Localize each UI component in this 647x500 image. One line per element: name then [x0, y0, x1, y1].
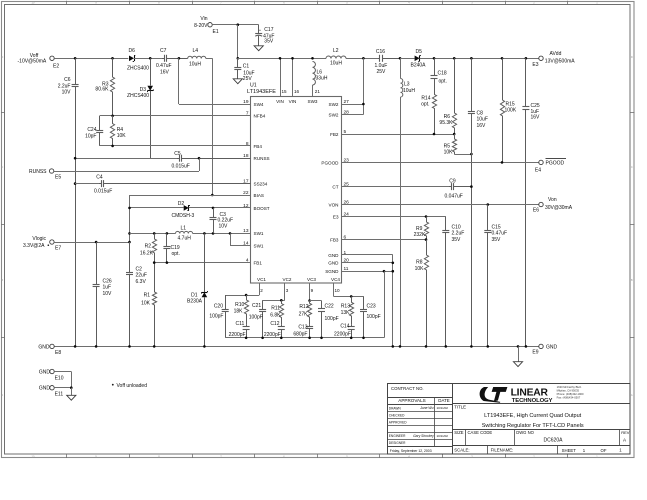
- svg-text:DESIGNER: DESIGNER: [389, 441, 406, 445]
- svg-text:SW1: SW1: [254, 244, 264, 249]
- svg-text:D: D: [631, 55, 633, 59]
- svg-text:C13: C13: [298, 325, 307, 331]
- svg-text:13V@500mA: 13V@500mA: [545, 59, 575, 65]
- svg-text:B230A: B230A: [187, 299, 203, 305]
- junction Vin rail start: [237, 57, 240, 60]
- capacitor C17 47uF polarized: [258, 25, 260, 34]
- svg-text:VC2: VC2: [283, 277, 292, 282]
- diode D6 ZHCS400: [129, 56, 134, 62]
- svg-text:27K: 27K: [299, 312, 309, 318]
- svg-text:16V: 16V: [531, 115, 541, 121]
- ground for C1: [233, 79, 242, 84]
- capacitor C20 100pF: [225, 295, 227, 309]
- svg-text:SHEET: SHEET: [562, 448, 577, 453]
- junction L3 top: [399, 57, 402, 60]
- svg-text:U1: U1: [250, 82, 257, 88]
- svg-text:100pF: 100pF: [209, 314, 223, 320]
- svg-text:SGND: SGND: [325, 269, 339, 274]
- svg-text:E8: E8: [55, 350, 61, 356]
- capacitor C1 10uF: [237, 58, 239, 67]
- terminal E4 PGOOD: [539, 160, 543, 164]
- junctions on ground rail: [74, 345, 77, 348]
- capacitor C22 100pF: [321, 301, 323, 309]
- svg-text:BOOST: BOOST: [254, 206, 270, 211]
- resistor R13 13K: [349, 296, 353, 324]
- wire SW2 riser: [363, 58, 365, 114]
- svg-text:C8: C8: [477, 111, 484, 117]
- junction SGND comp riser: [383, 270, 386, 273]
- capacitor C24 10pF: [99, 116, 101, 130]
- capacitor C25 1uF: [525, 58, 527, 107]
- svg-text:C6: C6: [64, 77, 71, 83]
- resistor R5 10K: [452, 134, 456, 154]
- svg-text:opt.: opt.: [172, 251, 180, 257]
- svg-text:C14: C14: [340, 324, 349, 330]
- title block left column lines: [452, 383, 454, 454]
- svg-text:CHECKED: CHECKED: [389, 413, 405, 417]
- wire C1 riser: [237, 25, 239, 59]
- wire FB2 net: [342, 134, 455, 136]
- svg-text:1uF: 1uF: [103, 285, 112, 291]
- svg-text:22uF: 22uF: [136, 273, 147, 279]
- wire VC1 stub: [259, 283, 261, 295]
- svg-text:10uH: 10uH: [403, 88, 415, 94]
- svg-text:2200pF: 2200pF: [229, 332, 246, 338]
- diode D2 CMDSH-3: [184, 205, 189, 211]
- svg-text:opt.: opt.: [439, 78, 447, 84]
- diode D5 B240A: [415, 56, 420, 62]
- svg-text:APPROVED: APPROVED: [389, 420, 407, 424]
- svg-text:E6: E6: [533, 207, 539, 213]
- svg-text:16: 16: [294, 89, 300, 94]
- diode D3 ZHCS400: [150, 58, 152, 85]
- svg-text:GND: GND: [39, 386, 51, 392]
- svg-text:C11: C11: [235, 321, 244, 327]
- svg-text:GND: GND: [546, 344, 558, 350]
- svg-text:R9: R9: [416, 226, 423, 232]
- svg-text:VC4: VC4: [331, 277, 340, 282]
- svg-text:FB4: FB4: [254, 144, 263, 149]
- svg-text:R14: R14: [421, 95, 430, 101]
- svg-text:1630 McCarthy Blvd.: 1630 McCarthy Blvd.: [557, 385, 582, 389]
- wire R5 bottom to C8 line: [454, 154, 471, 156]
- svg-text:3: 3: [286, 288, 289, 293]
- svg-text:95.3K: 95.3K: [439, 120, 453, 126]
- capacitor C18 opt: [434, 58, 436, 76]
- wire VC3 horizontal: [310, 300, 322, 302]
- svg-text:35V: 35V: [452, 237, 462, 243]
- wire E10: [54, 371, 71, 373]
- svg-text:Friday, September 12, 2003: Friday, September 12, 2003: [390, 449, 432, 453]
- svg-text:L2: L2: [333, 48, 339, 54]
- svg-text:CASE CODE: CASE CODE: [468, 430, 493, 435]
- wire VC2 horizontal: [263, 300, 285, 302]
- svg-text:VON: VON: [329, 202, 339, 207]
- svg-text:C12: C12: [270, 321, 279, 327]
- capacitor C2 22uF: [129, 242, 131, 272]
- svg-text:R11: R11: [271, 306, 280, 312]
- svg-text:opt.: opt.: [421, 102, 429, 108]
- wire SW4 to pin 19: [179, 104, 251, 106]
- capacitor C6 2.2uF: [75, 58, 77, 84]
- svg-text:B: B: [631, 278, 633, 282]
- svg-text:8-20V: 8-20V: [194, 23, 208, 29]
- svg-text:2200pF: 2200pF: [334, 332, 351, 338]
- svg-text:D: D: [1, 55, 3, 59]
- border zone ticks: [66, 1, 68, 4]
- svg-text:35V: 35V: [492, 237, 502, 243]
- wire FB4 rail: [100, 145, 251, 147]
- svg-text:3.3V@2A: 3.3V@2A: [23, 243, 45, 249]
- svg-text:C17: C17: [264, 27, 273, 33]
- svg-text:R8: R8: [416, 260, 423, 266]
- svg-text:C15: C15: [492, 225, 501, 231]
- svg-text:6.8K: 6.8K: [270, 312, 281, 318]
- resistor R2 16.2K: [152, 233, 156, 262]
- svg-text:100pF: 100pF: [325, 316, 339, 322]
- svg-text:E3: E3: [532, 62, 538, 68]
- title area: [452, 403, 630, 405]
- scale row: [452, 445, 630, 447]
- wire BIAS net: [130, 195, 251, 197]
- svg-text:4.7uH: 4.7uH: [178, 236, 192, 242]
- wire E3 pin net: [342, 216, 446, 218]
- svg-text:10V: 10V: [62, 90, 72, 96]
- svg-text:C10: C10: [452, 225, 461, 231]
- svg-text:PGOOD: PGOOD: [546, 160, 565, 166]
- note Voff unloaded: [112, 384, 114, 386]
- terminal E5 RUNSS: [49, 169, 53, 173]
- wire SGND pin11: [342, 271, 393, 273]
- svg-text:C26: C26: [103, 279, 112, 285]
- svg-text:C18: C18: [438, 71, 447, 77]
- svg-text:0.47uF: 0.47uF: [492, 231, 508, 237]
- resistor R4 10K: [110, 116, 114, 146]
- junction C26: [95, 241, 98, 244]
- svg-text:SW1: SW1: [254, 231, 264, 236]
- svg-text:L6: L6: [317, 70, 323, 76]
- wire E7 to C2 line: [54, 242, 129, 244]
- diode D1 B230A: [204, 233, 206, 292]
- svg-text:16.2K: 16.2K: [140, 251, 154, 257]
- svg-text:SW2: SW2: [329, 102, 339, 107]
- svg-text:C16: C16: [376, 49, 385, 55]
- svg-text:VIN: VIN: [276, 99, 284, 104]
- svg-text:6.3V: 6.3V: [136, 279, 147, 285]
- svg-text:Vin: Vin: [200, 16, 207, 22]
- capacitor C14 2200pF: [351, 325, 353, 327]
- wire L2 to C16: [346, 58, 377, 60]
- svg-text:R13: R13: [341, 304, 350, 310]
- svg-text:DWG NO: DWG NO: [516, 430, 534, 435]
- inductor L6 33uH: [313, 62, 316, 86]
- wire SW2 pin28: [342, 114, 364, 116]
- svg-text:C2: C2: [136, 267, 143, 273]
- wire E11: [54, 387, 71, 389]
- svg-text:FB1: FB1: [254, 261, 263, 266]
- capacitor C4 0.015uF: [98, 183, 101, 185]
- wire GND pin1: [342, 254, 393, 256]
- svg-text:10K: 10K: [415, 266, 425, 272]
- svg-text:ZHCS400: ZHCS400: [127, 93, 149, 99]
- junctions on C6 line: [74, 157, 77, 160]
- wire SS234 net: [75, 183, 98, 185]
- terminal E10 GND: [50, 369, 54, 373]
- op-amp U1 LT1943EFE body: [251, 97, 342, 284]
- wire VC3 stub: [309, 283, 311, 300]
- svg-text:C20: C20: [214, 304, 223, 310]
- capacitor C3 0.22uF: [213, 208, 215, 218]
- svg-text:100pF: 100pF: [249, 315, 263, 321]
- wire BOOST net: [130, 207, 184, 209]
- svg-text:SW4: SW4: [254, 102, 264, 107]
- svg-text:VIN: VIN: [289, 99, 297, 104]
- wire SW4 riser: [178, 58, 180, 104]
- svg-text:L3: L3: [404, 82, 410, 88]
- terminal E8 GND: [50, 344, 54, 348]
- terminal E7 Vlogic: [50, 240, 54, 244]
- svg-text:R15: R15: [506, 101, 515, 107]
- svg-text:10V: 10V: [219, 223, 229, 229]
- svg-text:E3: E3: [333, 214, 339, 219]
- svg-text:2: 2: [260, 288, 263, 293]
- svg-text:LT1943EFE: LT1943EFE: [247, 89, 276, 95]
- svg-text:GND: GND: [38, 344, 50, 350]
- wire E1 to C17: [212, 24, 259, 26]
- svg-text:SW2: SW2: [329, 113, 339, 118]
- svg-text:CT: CT: [332, 185, 338, 190]
- svg-text:2.2uF: 2.2uF: [452, 231, 465, 237]
- wire D5 to AVdd terminal: [420, 58, 539, 60]
- capacitor C12 2200pF: [281, 325, 283, 327]
- svg-text:AVdd: AVdd: [550, 51, 562, 57]
- svg-text:A: A: [1, 393, 3, 397]
- wire VIN pin 15 riser: [280, 58, 282, 96]
- svg-text:10K: 10K: [141, 300, 151, 306]
- wire VIN pin 16 riser: [292, 58, 294, 96]
- svg-text:E7: E7: [55, 245, 61, 251]
- svg-text:C5: C5: [174, 151, 181, 157]
- capacitor C9 0.047uF: [449, 186, 452, 188]
- svg-text:June Wu: June Wu: [419, 406, 433, 410]
- svg-text:FILENAME:: FILENAME:: [491, 447, 514, 452]
- svg-text:GND: GND: [328, 253, 339, 258]
- resistor R9 232K: [424, 217, 428, 240]
- svg-text:Vlogic: Vlogic: [32, 236, 46, 242]
- svg-text:35V: 35V: [264, 39, 274, 45]
- wire comp riser: [384, 271, 386, 338]
- svg-text:D2: D2: [178, 201, 185, 207]
- svg-text:E1: E1: [213, 29, 219, 35]
- wire Voff rail: [54, 58, 128, 60]
- wire BIAS vertical: [129, 195, 131, 273]
- svg-text:LT1943EFE, High Current Quad O: LT1943EFE, High Current Quad Output: [484, 413, 581, 419]
- svg-text:C1: C1: [243, 64, 250, 70]
- svg-text:10uH: 10uH: [330, 61, 342, 67]
- wire GND riser: [392, 255, 394, 347]
- wire VC4 horizontal: [334, 296, 364, 298]
- resistor R12 27K: [307, 301, 311, 325]
- svg-text:APPROVALS: APPROVALS: [398, 398, 426, 403]
- wire VC2 stub: [284, 283, 286, 300]
- svg-text:SCALE:: SCALE:: [454, 447, 469, 452]
- wire D6 to C7: [134, 58, 161, 60]
- svg-text:SIZE: SIZE: [454, 430, 464, 435]
- svg-text:Fax: (408)434-0507: Fax: (408)434-0507: [557, 395, 581, 399]
- svg-text:13K: 13K: [341, 310, 351, 316]
- svg-text:R6: R6: [444, 114, 451, 120]
- svg-text:PGOOD: PGOOD: [321, 160, 339, 165]
- svg-text:C21: C21: [252, 303, 261, 309]
- svg-text:OF: OF: [601, 448, 607, 453]
- wire rail to D5: [400, 58, 415, 60]
- wire SW1 pin14 jog: [230, 233, 232, 245]
- svg-text:-10V@50mA: -10V@50mA: [18, 59, 47, 65]
- svg-text:E9: E9: [532, 350, 538, 356]
- terminal E11 GND: [50, 386, 54, 390]
- svg-text:R10: R10: [235, 302, 244, 308]
- wire RUNSS net: [75, 158, 177, 160]
- svg-text:C7: C7: [160, 48, 167, 54]
- inductor L3 10uH: [400, 58, 402, 78]
- svg-text:B240A: B240A: [411, 63, 427, 69]
- svg-text:C23: C23: [367, 304, 376, 310]
- svg-text:0.47uF: 0.47uF: [156, 63, 172, 69]
- wire SW1 node: [193, 233, 251, 235]
- wire Vin rail: [238, 58, 326, 60]
- svg-text:Phone: (408)432-1900: Phone: (408)432-1900: [557, 392, 584, 396]
- svg-text:9: 9: [311, 288, 314, 293]
- capacitor C11 2200pF: [246, 325, 248, 327]
- ground symbol E10/E11: [67, 395, 76, 400]
- wire D2 to pin 12: [189, 207, 251, 209]
- junction R4 bottom: [111, 145, 114, 148]
- svg-text:0.047uF: 0.047uF: [445, 194, 463, 200]
- svg-text:E11: E11: [55, 392, 64, 398]
- wire E5 to riser: [54, 171, 199, 173]
- capacitor C21 100pF: [262, 300, 264, 309]
- svg-text:R5: R5: [444, 143, 451, 149]
- junction L4-BIAS: [211, 194, 214, 197]
- terminal E1 Vin: [208, 23, 212, 27]
- terminal E9 GND: [539, 344, 543, 348]
- svg-text:R4: R4: [117, 127, 124, 133]
- svg-text:C: C: [1, 165, 3, 169]
- svg-text:10/11/02: 10/11/02: [437, 406, 449, 410]
- svg-text:Voff unloaded: Voff unloaded: [117, 383, 148, 389]
- wire VON net: [342, 204, 539, 206]
- svg-text:B: B: [1, 278, 3, 282]
- svg-text:10uF: 10uF: [477, 117, 488, 123]
- capacitor C10 2.2uF: [445, 217, 447, 231]
- wire L4 to corner: [206, 58, 213, 60]
- wire L4 riser down to BIAS: [212, 58, 214, 195]
- svg-text:REV: REV: [621, 430, 630, 435]
- svg-text:10V: 10V: [103, 291, 113, 297]
- svg-text:0.015uF: 0.015uF: [172, 164, 190, 170]
- svg-text:80.6K: 80.6K: [95, 87, 109, 93]
- svg-text:680pF: 680pF: [293, 331, 307, 337]
- wire CT net: [342, 186, 450, 188]
- svg-text:10uH: 10uH: [189, 62, 201, 68]
- svg-text:Von: Von: [548, 197, 557, 203]
- svg-text:18K: 18K: [234, 308, 244, 314]
- svg-text:R1: R1: [144, 293, 151, 299]
- ground symbol on rail: [518, 346, 520, 361]
- svg-text:E10: E10: [55, 375, 64, 381]
- junctions on AVdd rail: [433, 57, 436, 60]
- capacitor C23 100pF: [363, 296, 365, 298]
- svg-text:ENGINEER: ENGINEER: [389, 434, 406, 438]
- capacitor C26 1uF: [96, 242, 98, 284]
- resistor R8 10K: [424, 240, 428, 347]
- resistor R6 95.3K: [452, 58, 456, 134]
- wire FB3 net: [342, 239, 427, 241]
- svg-text:C24: C24: [87, 127, 96, 133]
- svg-text:E2: E2: [53, 63, 59, 69]
- svg-text:Gary Shockey: Gary Shockey: [413, 434, 434, 438]
- svg-text:Switching Regulator For TFT-LC: Switching Regulator For TFT-LCD Panels: [482, 423, 584, 429]
- svg-text:25V: 25V: [243, 76, 253, 82]
- wire Vlogic output node: [130, 233, 176, 235]
- wire main ground rail: [54, 346, 539, 348]
- svg-text:E5: E5: [55, 174, 61, 180]
- svg-text:100pF: 100pF: [367, 314, 381, 320]
- ground for C17: [254, 46, 263, 51]
- wire VC1 horizontal: [225, 295, 259, 297]
- resistor R14 opt: [432, 91, 436, 134]
- svg-text:A: A: [631, 393, 633, 397]
- svg-text:232K: 232K: [414, 232, 426, 238]
- svg-text:FB3: FB3: [330, 238, 339, 243]
- svg-text:E4: E4: [535, 167, 541, 173]
- svg-text:DRAWN: DRAWN: [389, 406, 402, 410]
- inductor L2 10uH: [326, 56, 346, 59]
- inductor L4 10uH: [188, 56, 206, 58]
- svg-text:D6: D6: [129, 48, 136, 54]
- svg-text:1.0uF: 1.0uF: [375, 63, 388, 69]
- wire GND pin20: [342, 262, 393, 264]
- capacitor C13 680pF: [309, 325, 311, 327]
- svg-text:VC3: VC3: [307, 277, 316, 282]
- junction L6 top: [311, 57, 314, 60]
- svg-text:BIAS: BIAS: [254, 193, 264, 198]
- junction C1 riser: [237, 23, 240, 26]
- svg-text:10: 10: [335, 288, 341, 293]
- svg-text:R12: R12: [299, 304, 308, 310]
- svg-text:RUNSS: RUNSS: [29, 169, 47, 175]
- resistor R1 10K: [152, 263, 156, 347]
- terminal E6 Von: [539, 202, 543, 206]
- svg-text:10K: 10K: [444, 149, 454, 155]
- svg-text:100K: 100K: [505, 108, 517, 114]
- wire comp ground rail: [225, 337, 384, 339]
- wire SW2 pin27: [342, 104, 364, 106]
- svg-text:D3: D3: [140, 87, 147, 93]
- svg-text:DATE: DATE: [438, 398, 449, 403]
- svg-text:10pF: 10pF: [85, 134, 96, 140]
- size row: [452, 429, 630, 431]
- capacitor C7 0.47uF: [161, 58, 164, 60]
- svg-text:25V: 25V: [377, 69, 387, 75]
- svg-text:DC620A: DC620A: [544, 438, 564, 444]
- linear technology logo: [480, 387, 553, 404]
- svg-text:33uH: 33uH: [316, 76, 328, 82]
- svg-text:C4: C4: [96, 175, 103, 181]
- svg-text:Milpitas, CA 95035: Milpitas, CA 95035: [557, 389, 580, 393]
- svg-text:16V: 16V: [477, 123, 487, 129]
- resistor R10 18K: [244, 295, 248, 325]
